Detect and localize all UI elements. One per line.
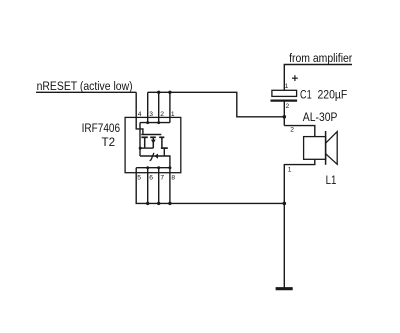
junction pin2 top xyxy=(157,91,160,94)
wire nRESET horizontal xyxy=(36,91,136,93)
wire node to speaker pin 2 xyxy=(284,126,315,137)
node nRESET label xyxy=(37,79,133,93)
speaker diaphragm bar xyxy=(325,131,327,165)
mosfet drain lead xyxy=(161,137,163,148)
wire pin 3 stub xyxy=(147,92,149,122)
junction ground speaker xyxy=(283,202,287,206)
IC package body T2 xyxy=(125,117,181,172)
speaker pin 1 label xyxy=(288,167,292,174)
body diode arrow xyxy=(154,154,158,159)
wire pin 8 stub down xyxy=(169,168,171,204)
svg-text:2: 2 xyxy=(290,127,294,134)
wire internal source rail vertical xyxy=(139,123,141,156)
junction pin1 top xyxy=(168,91,171,94)
mosfet channel segment source xyxy=(141,136,147,138)
transistor T2 IRF7406 label xyxy=(82,121,121,149)
svg-text:nRESET (active low): nRESET (active low) xyxy=(37,79,133,93)
mosfet bulk arrow xyxy=(151,140,156,144)
mosfet drain contact bar xyxy=(161,147,168,149)
wire pin 1 stub xyxy=(169,92,171,122)
junction internal pin2 xyxy=(157,121,160,124)
mosfet gate bar xyxy=(141,134,161,136)
capacitor C1 value label xyxy=(300,88,348,102)
wire C1 pin 2 down to node xyxy=(283,101,285,126)
wire pin 5 down to ground bus xyxy=(136,168,284,204)
junction drain pin8 xyxy=(168,166,171,169)
pin number 2 xyxy=(160,111,164,118)
capacitor C1 positive plate xyxy=(272,90,297,96)
wire pin 7 stub down xyxy=(158,168,160,204)
wire nRESET down to pin 4 gate path xyxy=(136,92,143,134)
speaker L1 body xyxy=(304,137,326,160)
pin number 3 xyxy=(149,111,153,118)
junction ground pin6 xyxy=(146,202,149,205)
svg-text:AL-30P: AL-30P xyxy=(303,110,338,124)
speaker pin 2 label xyxy=(290,127,294,134)
node from-amplifier label xyxy=(289,51,352,65)
wire amplifier down to C1 pin 1 xyxy=(283,65,285,91)
body diode cathode bar xyxy=(150,153,154,161)
wire ground stem xyxy=(283,203,285,287)
svg-text:8: 8 xyxy=(171,175,175,182)
svg-text:5: 5 xyxy=(137,175,141,182)
wire pin 6 stub down xyxy=(147,168,149,204)
pin number 1 xyxy=(171,111,175,118)
svg-text:1: 1 xyxy=(288,167,292,174)
pin number 5 xyxy=(137,175,141,182)
mosfet channel segment bulk xyxy=(150,136,156,138)
junction ground pin7 xyxy=(157,202,160,205)
svg-text:6: 6 xyxy=(149,175,153,182)
wire internal drain bus xyxy=(136,167,170,169)
mosfet drain lead lower xyxy=(163,148,165,156)
pin number 7 xyxy=(160,175,164,182)
junction drain pin7 xyxy=(157,166,160,169)
speaker L1 reference label xyxy=(326,173,337,187)
junction internal pin3 xyxy=(146,121,149,124)
mosfet source lead xyxy=(144,137,146,148)
svg-text:2: 2 xyxy=(286,103,290,110)
wire internal source bus xyxy=(140,122,170,124)
svg-text:IRF7406: IRF7406 xyxy=(82,121,121,135)
svg-text:C1: C1 xyxy=(300,88,312,102)
capacitor C1 negative plate xyxy=(271,99,298,101)
pin number 4 xyxy=(138,111,142,118)
body diode line xyxy=(140,156,170,168)
junction drain pin6 xyxy=(146,166,149,169)
pin number 6 xyxy=(149,175,153,182)
svg-text:from amplifier: from amplifier xyxy=(289,51,352,65)
mosfet bulk lead xyxy=(152,137,154,148)
svg-text:220µF: 220µF xyxy=(318,88,348,102)
node junction C1/speaker xyxy=(283,115,287,119)
mosfet channel segment drain xyxy=(159,136,164,138)
mosfet source connect line xyxy=(140,147,153,149)
junction ground pin8 xyxy=(168,202,171,205)
ground symbol xyxy=(276,287,293,290)
capacitor C1 pin 1 label xyxy=(285,83,289,90)
speaker L1 type label AL-30P xyxy=(303,110,338,124)
capacitor C1 pin 2 label xyxy=(286,103,290,110)
wire from amplifier horizontal xyxy=(284,64,352,66)
pin number 8 xyxy=(171,175,175,182)
capacitor C1 plus sign xyxy=(292,75,298,81)
junction source rail xyxy=(139,147,142,150)
svg-text:1: 1 xyxy=(285,83,289,90)
svg-text:L1: L1 xyxy=(326,173,337,187)
svg-text:7: 7 xyxy=(160,175,164,182)
wire speaker pin 1 down to ground xyxy=(284,159,315,203)
wire pin 2 stub xyxy=(158,92,160,122)
speaker horn xyxy=(326,132,338,165)
wire source net pins 3-2-1 to C1 node xyxy=(148,92,285,117)
svg-text:T2: T2 xyxy=(102,135,116,149)
